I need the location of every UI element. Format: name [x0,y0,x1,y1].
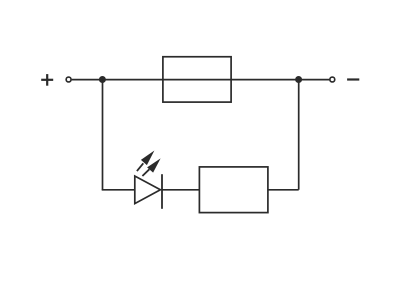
LED D1 triangle [135,176,161,204]
LED light arrow 1 [137,151,155,172]
fuse F1 [163,57,231,102]
resistor R1 (box) [199,167,268,213]
node junction left [99,76,106,83]
wire: through fuse [163,79,231,81]
wire: right vertical branch [298,80,300,190]
terminal (open circle) left [66,77,71,82]
terminal (open circle) right [330,77,335,82]
wire: left vertical branch [102,80,104,190]
minus terminal label [347,78,359,80]
node junction right [295,76,302,83]
wire: bottom left to LED anode [102,189,135,191]
wire: left terminal to fuse [72,79,163,81]
plus terminal label [41,74,53,86]
wire: LED cathode to resistor [162,189,199,191]
LED D1 cathode bar [161,174,163,209]
wire: resistor to right vertical [268,189,299,191]
LED light arrow 2 [142,158,160,176]
wire: fuse to right terminal [231,79,329,81]
